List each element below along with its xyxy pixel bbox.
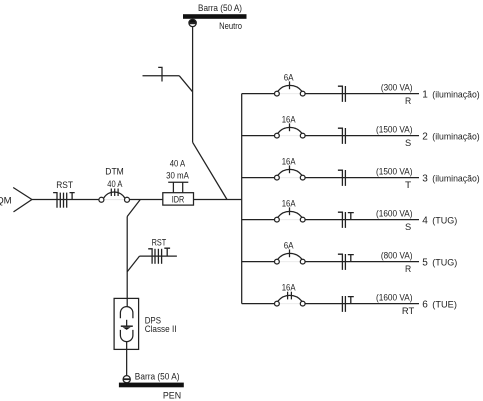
wire DPS to earth bar	[126, 342, 128, 376]
conductor marks circuit 6	[342, 296, 353, 312]
svg-text:(iluminação): (iluminação)	[432, 131, 479, 142]
svg-text:1: 1	[422, 89, 428, 100]
neutral conductor tick	[158, 67, 162, 81]
svg-text:(TUG): (TUG)	[432, 215, 457, 226]
svg-text:RST: RST	[152, 238, 167, 248]
svg-text:Classe II: Classe II	[145, 324, 177, 334]
breaker 16A circuit 4	[275, 207, 306, 222]
svg-text:(TUG): (TUG)	[432, 257, 457, 268]
DPS gap arrow	[121, 320, 133, 330]
svg-text:(300 VA): (300 VA)	[381, 82, 413, 92]
breaker 16A circuit 3	[275, 165, 306, 180]
svg-text:Barra (50 A): Barra (50 A)	[135, 371, 180, 381]
svg-text:(iluminação): (iluminação)	[432, 89, 479, 100]
svg-text:6A: 6A	[284, 73, 294, 83]
DPS box	[114, 298, 139, 349]
svg-text:5: 5	[422, 257, 428, 268]
incoming supply chevron	[13, 188, 32, 212]
svg-text:Barra (50 A): Barra (50 A)	[198, 3, 242, 13]
wire RST stub (DPS branch)	[140, 255, 177, 257]
conductor marks circuit 1	[338, 86, 346, 102]
IDR box	[163, 193, 194, 205]
svg-text:(1600 VA): (1600 VA)	[376, 292, 413, 302]
svg-text:16A: 16A	[282, 115, 296, 125]
svg-text:2: 2	[422, 131, 428, 142]
svg-text:S: S	[405, 222, 411, 233]
wire IDR to distribution bus	[194, 199, 242, 201]
IDR toroid symbol	[168, 182, 188, 192]
svg-text:(iluminação): (iluminação)	[432, 173, 479, 184]
wire DTM to IDR	[130, 199, 163, 201]
svg-text:R: R	[405, 264, 411, 275]
svg-text:DTM: DTM	[105, 167, 124, 177]
DPS bottom electrode	[120, 330, 132, 342]
circuit 2 wire	[242, 135, 275, 137]
circuit rows inserted here	[242, 73, 480, 317]
breaker 16A circuit 2	[275, 123, 306, 138]
neutral busbar	[183, 14, 247, 19]
svg-text:3: 3	[422, 173, 428, 184]
earth busbar	[119, 383, 184, 388]
conductor marks circuit 5	[338, 254, 354, 270]
svg-text:16A: 16A	[282, 157, 296, 167]
circuit 3 wire	[242, 177, 275, 179]
svg-text:30 mA: 30 mA	[166, 170, 189, 180]
svg-text:QM: QM	[0, 195, 12, 205]
conductor marks circuit 3	[338, 170, 346, 186]
circuit 5 wire	[242, 261, 275, 263]
svg-text:RST: RST	[56, 180, 73, 190]
svg-text:S: S	[405, 138, 411, 149]
wire QM to DTM	[32, 199, 99, 201]
conductor marks RST + N + PE (feeder)	[53, 193, 75, 208]
terminal neutro (half-filled circle)	[189, 19, 196, 26]
svg-text:Neutro: Neutro	[219, 21, 242, 31]
circuit 1 wire	[242, 93, 275, 95]
svg-text:6A: 6A	[284, 241, 294, 251]
svg-text:(1600 VA): (1600 VA)	[376, 208, 413, 218]
neutral conductor stub	[143, 75, 180, 77]
svg-text:40 A: 40 A	[170, 159, 186, 169]
distribution bus vertical	[241, 94, 243, 304]
svg-text:(1500 VA): (1500 VA)	[376, 124, 413, 134]
svg-text:RT: RT	[402, 306, 415, 317]
breaker 6A circuit 5	[275, 249, 306, 264]
circuit 4 wire	[242, 219, 275, 221]
conductor marks circuit 4	[338, 212, 354, 228]
DPS top electrode	[120, 307, 132, 319]
svg-text:(800 VA): (800 VA)	[381, 250, 413, 260]
svg-text:PEN: PEN	[163, 390, 181, 400]
svg-text:16A: 16A	[282, 283, 296, 293]
svg-text:4: 4	[422, 215, 428, 226]
svg-text:40 A: 40 A	[107, 179, 122, 189]
svg-text:(1500 VA): (1500 VA)	[376, 166, 413, 176]
svg-text:(TUE): (TUE)	[432, 299, 457, 310]
terminal PEN (circle with bar)	[123, 376, 130, 383]
conductor marks circuit 2	[338, 128, 346, 144]
svg-text:T: T	[405, 180, 411, 191]
wire branch diagonal to DPS	[127, 200, 140, 217]
svg-text:R: R	[405, 96, 411, 107]
breaker 6A circuit 1	[275, 81, 306, 96]
svg-text:IDR: IDR	[172, 194, 185, 204]
wire neutral stub diagonal	[179, 76, 192, 92]
breaker DTM	[99, 189, 130, 203]
wire neutral vertical from busbar	[192, 27, 194, 143]
wire DPS vertical	[126, 217, 128, 307]
wire neutral diagonal to feeder	[193, 142, 227, 199]
svg-text:16A: 16A	[282, 199, 296, 209]
circuit 6 wire	[242, 303, 275, 305]
wire diagonal to RST stub	[127, 256, 139, 272]
conductor marks RST + N + PE (DPS branch)	[148, 248, 170, 264]
svg-text:6: 6	[422, 299, 428, 310]
breaker 16A circuit 6	[275, 292, 306, 306]
